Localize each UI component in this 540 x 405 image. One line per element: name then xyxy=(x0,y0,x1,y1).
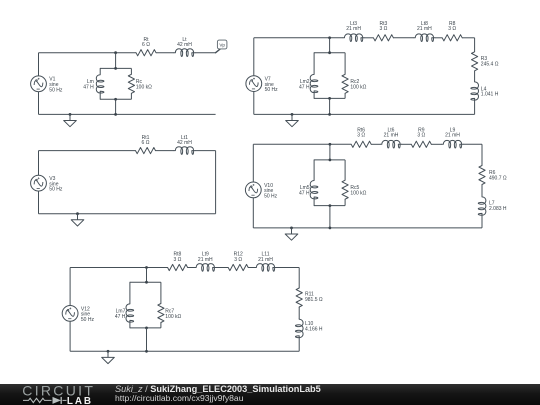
ground C4 xyxy=(285,228,298,240)
resistor R8 xyxy=(442,35,462,41)
svg-text:42 mH: 42 mH xyxy=(177,42,192,48)
wire C4 top right segment xyxy=(463,143,482,145)
inductor L4 xyxy=(471,82,479,101)
wire C4 right mid xyxy=(481,185,483,197)
wire C2 branch top bar xyxy=(314,52,345,54)
resistor R6 xyxy=(479,166,485,185)
junction C2 top xyxy=(328,36,331,39)
wire C5 stub bottom xyxy=(146,328,148,351)
junction C5 branch bottom xyxy=(145,327,148,330)
wire C2 right upper xyxy=(474,38,476,52)
svg-text:21 mH: 21 mH xyxy=(258,257,273,263)
junction node C1 top xyxy=(114,51,117,54)
wire C2 bottom xyxy=(254,113,475,115)
svg-text:21 mH: 21 mH xyxy=(384,133,399,139)
junction C4 bottom xyxy=(329,227,332,230)
ground C3 xyxy=(71,214,84,226)
wire C1 left lower xyxy=(38,92,40,115)
svg-text:6 Ω: 6 Ω xyxy=(142,42,150,48)
svg-text:3 Ω: 3 Ω xyxy=(379,26,387,32)
svg-text:21 mH: 21 mH xyxy=(198,257,213,263)
inductor Lm xyxy=(96,68,104,99)
svg-text:50 Hz: 50 Hz xyxy=(49,187,63,193)
junction C5 top xyxy=(145,266,148,269)
wire C2 stub top xyxy=(329,38,331,53)
wire C3 right xyxy=(215,151,217,214)
junction C1 branch top xyxy=(114,67,117,70)
wire C5 left lower xyxy=(69,321,71,351)
svg-text:50 Hz: 50 Hz xyxy=(264,193,278,199)
junction C4 branch top xyxy=(329,159,332,162)
junction C2 bottom xyxy=(328,113,331,116)
svg-text:21 mH: 21 mH xyxy=(445,133,460,139)
wire C5 branch top bar xyxy=(130,281,161,283)
wire C3 top left segment xyxy=(39,150,136,152)
inductor L7 xyxy=(478,196,486,215)
wire C4 bottom xyxy=(253,227,482,229)
wire C3 left lower xyxy=(38,191,40,214)
wire C1 branch top bar xyxy=(100,67,131,69)
wire C1 left upper xyxy=(38,53,40,76)
label V7 name/value xyxy=(265,77,279,94)
resistor Rc5 xyxy=(342,180,348,199)
wire C5 R12-L11 xyxy=(248,267,255,269)
svg-text:3 Ω: 3 Ω xyxy=(417,133,425,139)
wire C4 Rc5 upper lead xyxy=(344,160,346,180)
label V1 name/value xyxy=(49,77,63,94)
wire C2 Lt8-R8 xyxy=(435,37,442,39)
wire C4 stub top xyxy=(329,144,331,160)
wire C5 left upper xyxy=(69,268,71,306)
svg-text:47 H: 47 H xyxy=(115,314,126,320)
wire C5 Rt8-Lt9 xyxy=(188,267,195,269)
svg-text:1.041 H: 1.041 H xyxy=(481,92,499,98)
wire C2 branch bottom bar xyxy=(314,97,345,99)
wire C5 Rc7 lower lead xyxy=(160,323,162,328)
ground C2 xyxy=(286,114,299,126)
svg-text:50 Hz: 50 Hz xyxy=(81,317,95,323)
svg-text:100 kΩ: 100 kΩ xyxy=(165,314,181,320)
wire C1 Rc lower lead xyxy=(130,93,132,99)
wire C5 Rc7 upper lead xyxy=(160,282,162,303)
svg-text:47 H: 47 H xyxy=(83,85,94,91)
junction C1 bottom xyxy=(114,113,117,116)
junction C2 branch top xyxy=(328,51,331,54)
inductor Lt xyxy=(174,49,195,57)
inductor L11 xyxy=(255,264,276,272)
footer url line xyxy=(115,393,244,403)
resistor R9 xyxy=(411,141,431,147)
wire C2 top left segment xyxy=(254,37,343,39)
inductor Lt6 xyxy=(381,140,402,148)
wire C2 right lower xyxy=(474,101,476,115)
junction C5 branch top xyxy=(145,281,148,284)
voltage source V1 xyxy=(31,76,47,92)
wire to flag Vp xyxy=(216,49,221,53)
svg-text:4.166 H: 4.166 H xyxy=(305,327,323,333)
resistor R12 xyxy=(228,264,248,270)
CircuitLab logo xyxy=(0,384,110,405)
wire C3 left upper xyxy=(38,151,40,176)
junction at ground C4 xyxy=(290,227,293,230)
wire C4 right lower xyxy=(481,216,483,228)
resistor R11 xyxy=(296,288,302,307)
wire C4 Rc5 lower lead xyxy=(344,199,346,205)
inductor Lm7 xyxy=(126,282,134,328)
wire C5 right upper xyxy=(298,268,300,289)
wire C1 branch bottom bar xyxy=(100,98,131,100)
wire C5 right mid xyxy=(298,307,300,319)
label V10 name/value xyxy=(264,183,278,200)
wire C2 stub bottom xyxy=(329,98,331,114)
wire C5 top left segment xyxy=(70,267,168,269)
wire C4 Rt6-Lt6 xyxy=(371,143,380,145)
wire C4 Lt6-R9 xyxy=(402,143,412,145)
svg-text:490.7 Ω: 490.7 Ω xyxy=(489,175,507,181)
svg-text:47 H: 47 H xyxy=(299,85,310,91)
wire C1 stub bottom xyxy=(115,99,117,114)
svg-text:Vp: Vp xyxy=(219,42,225,47)
junction C4 branch bottom xyxy=(329,204,332,207)
wire C5 Lt9-R12 xyxy=(216,267,228,269)
resistor Rt6 xyxy=(351,141,371,147)
inductor Lt9 xyxy=(195,264,216,272)
resistor Rc xyxy=(128,74,134,93)
svg-text:21 mH: 21 mH xyxy=(417,26,432,32)
wire C5 stub top xyxy=(146,268,148,283)
svg-text:LAB: LAB xyxy=(67,396,93,405)
wire C5 right lower xyxy=(298,338,300,351)
junction at ground C5 xyxy=(107,350,110,353)
ground C5 xyxy=(102,351,115,363)
wire C5 top right segment xyxy=(276,267,299,269)
svg-text:21 mH: 21 mH xyxy=(346,26,361,32)
inductor Lt1 xyxy=(174,147,195,155)
resistor Rt8 xyxy=(168,264,188,270)
wire C3 top right segment xyxy=(195,150,216,152)
voltage source V3 xyxy=(31,175,47,191)
junction at ground C3 xyxy=(76,212,79,215)
inductor Lt8 xyxy=(414,34,435,42)
wire C1 Rc upper lead xyxy=(130,68,132,74)
svg-text:2.083 H: 2.083 H xyxy=(489,206,507,212)
inductor Lt3 xyxy=(343,34,364,42)
wire C3 bottom xyxy=(39,213,216,215)
junction C2 branch bottom xyxy=(328,97,331,100)
wire C2 left upper xyxy=(253,38,255,76)
wire C1 between Rt and Lt xyxy=(156,52,174,54)
svg-text:6 Ω: 6 Ω xyxy=(142,140,150,146)
svg-text:3 Ω: 3 Ω xyxy=(357,133,365,139)
svg-text:100 kΩ: 100 kΩ xyxy=(136,85,152,91)
svg-text:3 Ω: 3 Ω xyxy=(448,26,456,32)
wire C2 Rt3-Lt8 xyxy=(393,37,414,39)
junction C1 branch bottom xyxy=(114,98,117,101)
junction C5 bottom xyxy=(145,350,148,353)
wire C2 Rc2 lower lead xyxy=(344,93,346,98)
inductor Lm5 xyxy=(310,160,318,206)
label V12 name/value xyxy=(81,306,95,323)
wire C4 branch bottom bar xyxy=(314,205,345,207)
resistor R3 xyxy=(472,52,478,71)
voltage source V10 xyxy=(245,182,261,198)
resistor Rt3 xyxy=(373,35,393,41)
svg-text:245.4 Ω: 245.4 Ω xyxy=(481,62,499,68)
wire C5 bottom xyxy=(70,350,299,352)
svg-text:42 mH: 42 mH xyxy=(177,140,192,146)
junction at ground C1 xyxy=(69,113,72,116)
wire C2 left lower xyxy=(253,92,255,115)
wire C4 top left segment xyxy=(253,143,351,145)
voltage source V7 xyxy=(246,76,262,92)
logo wire with resistor and diode xyxy=(23,397,67,404)
flag Vp xyxy=(217,40,227,49)
inductor L9 xyxy=(442,140,463,148)
wire C2 right mid xyxy=(474,71,476,82)
junction at ground C2 xyxy=(291,113,294,116)
resistor Rc2 xyxy=(342,74,348,93)
wire C2 Rc2 upper lead xyxy=(344,53,346,75)
wire C4 left upper xyxy=(252,144,254,182)
wire C4 left lower xyxy=(252,198,254,228)
svg-text:3 Ω: 3 Ω xyxy=(234,257,242,263)
inductor L10 xyxy=(295,319,303,338)
svg-text:100 kΩ: 100 kΩ xyxy=(350,85,366,91)
wire C2 top right segment xyxy=(462,37,474,39)
inductor Lm2 xyxy=(310,53,318,99)
resistor Rt xyxy=(136,50,156,56)
wire C1 after Lt xyxy=(195,52,216,54)
footer bar xyxy=(0,384,540,405)
wire C3 Rt1-Lt1 xyxy=(156,150,175,152)
resistor Rc7 xyxy=(158,304,164,323)
wire C1 bottom xyxy=(39,113,216,115)
wire C4 stub bottom xyxy=(329,206,331,228)
wire C4 R9-L9 xyxy=(431,143,442,145)
voltage source V12 xyxy=(62,306,78,322)
junction C4 top xyxy=(329,143,332,146)
resistor Rt1 xyxy=(136,148,156,154)
svg-text:981.5 Ω: 981.5 Ω xyxy=(305,297,323,303)
wire C1 top left segment xyxy=(39,52,137,54)
svg-text:47 H: 47 H xyxy=(299,191,310,197)
svg-text:50 Hz: 50 Hz xyxy=(265,87,279,93)
wire C5 branch bottom bar xyxy=(130,327,161,329)
label V3 name/value xyxy=(49,176,63,193)
wire C2 Lt3-Rt3 xyxy=(364,37,373,39)
wire C4 right upper xyxy=(481,144,483,165)
svg-text:100 kΩ: 100 kΩ xyxy=(350,191,366,197)
wire C1 stub top xyxy=(115,53,117,69)
ground C1 xyxy=(64,114,77,126)
svg-text:3 Ω: 3 Ω xyxy=(173,257,181,263)
footer title line xyxy=(115,384,321,394)
wire C4 branch top bar xyxy=(314,159,345,161)
svg-text:50 Hz: 50 Hz xyxy=(49,87,63,93)
